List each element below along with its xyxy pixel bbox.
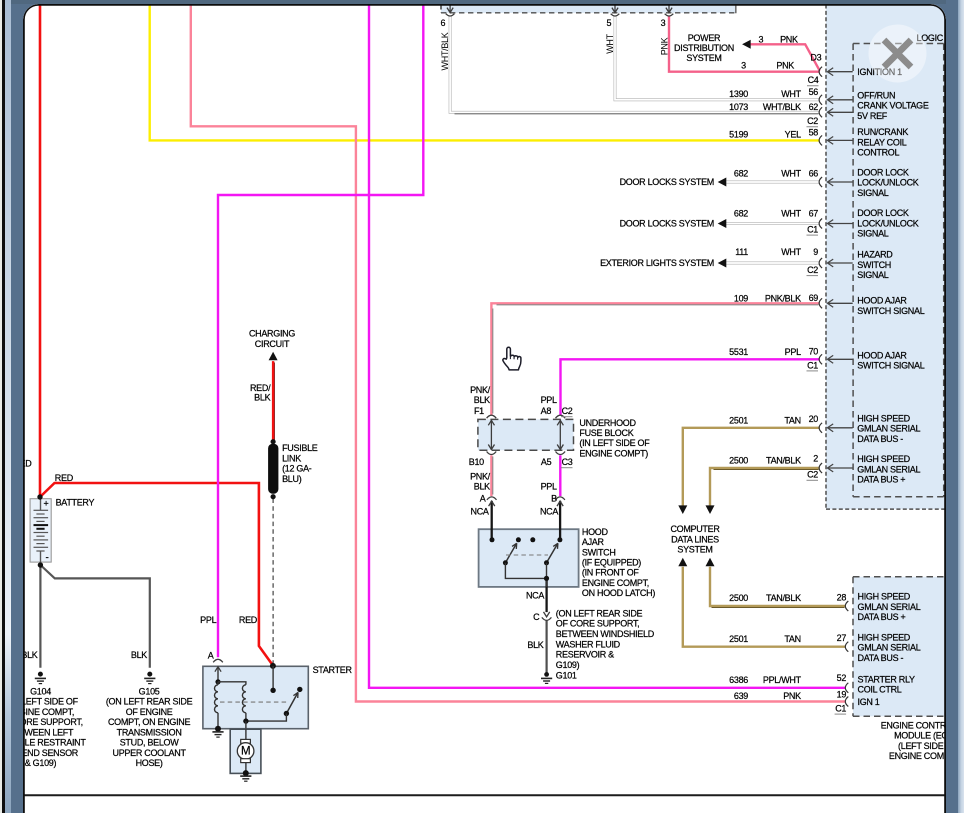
wire: BLK battery negative to G105	[40, 565, 149, 668]
frame slate backdrop (top corners)	[2, 0, 964, 30]
svg-text:62: 62	[808, 101, 818, 111]
wire: PPL fuse A5 to hood switch B	[559, 455, 561, 496]
svg-text:PPL: PPL	[200, 615, 216, 625]
svg-text:NCA: NCA	[470, 506, 488, 516]
svg-text:DATA BUS -: DATA BUS -	[857, 652, 903, 662]
svg-text:ENGINE COMPT,: ENGINE COMPT,	[23, 706, 74, 716]
wire: TAN/BLK 2500 (ECM pin 2 to computer data lines)	[710, 468, 820, 506]
svg-text:SIGNAL: SIGNAL	[857, 270, 889, 280]
svg-text:WHT: WHT	[781, 208, 801, 218]
svg-text:STARTER RLY: STARTER RLY	[857, 674, 915, 684]
svg-text:TAN/BLK: TAN/BLK	[766, 593, 801, 603]
wire: BLK hood switch A drop	[490, 500, 492, 539]
svg-text:28: 28	[836, 592, 846, 602]
svg-text:PNK: PNK	[783, 690, 801, 700]
svg-text:HAZARD: HAZARD	[857, 249, 893, 259]
arrow: to power distribution system	[742, 39, 751, 48]
ECM pin 70 connector	[819, 354, 822, 364]
svg-text:C1: C1	[835, 703, 846, 713]
svg-text:CHARGING: CHARGING	[248, 328, 294, 338]
svg-text:2: 2	[813, 453, 818, 463]
wire: RED battery to starter S terminal	[40, 483, 273, 665]
motor brush top	[240, 739, 250, 743]
svg-text:C1: C1	[807, 360, 818, 370]
svg-text:PNK: PNK	[659, 37, 669, 55]
svg-text:COMPT, ON ENGINE: COMPT, ON ENGINE	[107, 717, 190, 727]
window frame: left outer black edge	[2, 0, 5, 813]
fuse block B10 connector	[486, 451, 496, 454]
ECM pin 62 connector	[819, 107, 822, 117]
svg-text:SIGNAL: SIGNAL	[857, 187, 889, 197]
svg-text:DOOR LOCKS SYSTEM: DOOR LOCKS SYSTEM	[619, 177, 713, 187]
svg-text:DATA LINES: DATA LINES	[671, 534, 719, 544]
node: hood switch contact B	[557, 537, 562, 542]
svg-text:& G109): & G109)	[24, 758, 56, 768]
svg-text:WHT: WHT	[605, 33, 615, 53]
svg-text:OF ENGINE: OF ENGINE	[125, 706, 172, 716]
svg-text:HOSE): HOSE)	[135, 758, 162, 768]
svg-text:WHT: WHT	[781, 247, 801, 257]
starter A terminal connector	[213, 659, 223, 662]
wire: TAN 2501 to ECM2 pin 27	[682, 566, 845, 646]
svg-text:WASHER FLUID: WASHER FLUID	[555, 639, 620, 649]
hood switch right arm	[546, 543, 557, 563]
svg-text:ON HOOD LATCH): ON HOOD LATCH)	[581, 588, 654, 598]
fuse element F1-B10 (double arrow)	[490, 420, 492, 450]
wire: TAN 2501 (ECM pin 20 to computer data lines)	[682, 427, 819, 505]
fuse block F1 connector	[486, 415, 496, 418]
node: left arm pivot	[502, 560, 507, 565]
svg-text:HIGH SPEED: HIGH SPEED	[857, 591, 910, 601]
svg-text:FUSIBLE: FUSIBLE	[282, 443, 318, 453]
hood switch connector A	[486, 496, 496, 499]
svg-text:(IN LEFT SIDE OF: (IN LEFT SIDE OF	[579, 438, 650, 448]
svg-text:G109): G109)	[555, 659, 579, 669]
svg-text:BETWEEN LEFT: BETWEEN LEFT	[23, 727, 74, 737]
wire: NCA hood switch C drop	[545, 578, 547, 612]
starter pull-in coil	[217, 681, 219, 684]
svg-text:109: 109	[733, 293, 747, 303]
svg-text:HOOD: HOOD	[581, 526, 608, 536]
svg-text:ON CORE SUPPORT,: ON CORE SUPPORT,	[23, 717, 83, 727]
fuse block A8 connector	[555, 415, 565, 418]
svg-text:3: 3	[758, 34, 763, 44]
svg-text:NCA: NCA	[539, 506, 557, 516]
svg-text:BLU): BLU)	[282, 473, 302, 483]
svg-text:WHT/BLK: WHT/BLK	[439, 32, 449, 70]
svg-text:PPL: PPL	[540, 395, 556, 405]
svg-text:BLK: BLK	[527, 640, 543, 650]
svg-text:GMLAN SERIAL: GMLAN SERIAL	[857, 642, 920, 652]
window frame: right glossy strip	[958, 0, 964, 813]
node: hood switch contact 2	[515, 537, 520, 542]
svg-text:6: 6	[440, 17, 445, 27]
arrow: to door locks system (67)	[717, 219, 726, 228]
svg-text:PPL/WHT: PPL/WHT	[762, 674, 801, 684]
svg-text:(IN FRONT OF: (IN FRONT OF	[581, 567, 639, 577]
svg-text:58: 58	[808, 127, 818, 137]
arrow: to exterior lights system (9)	[717, 258, 726, 267]
arrow up from computer data lines (right)	[705, 557, 714, 566]
svg-text:5: 5	[606, 17, 611, 27]
wire: WHT 1390 (fuse pin 5 to ECM 56)	[615, 15, 820, 99]
svg-text:RED/: RED/	[249, 382, 270, 392]
svg-text:BLK: BLK	[23, 649, 38, 659]
svg-text:CIRCUIT: CIRCUIT	[254, 338, 289, 348]
svg-text:UPPER COOLANT: UPPER COOLANT	[112, 747, 186, 757]
svg-text:C: C	[533, 611, 540, 621]
svg-text:GMLAN SERIAL: GMLAN SERIAL	[857, 464, 920, 474]
svg-text:TAN: TAN	[784, 415, 800, 425]
svg-text:BETWEEN WINDSHIELD: BETWEEN WINDSHIELD	[555, 629, 654, 639]
svg-text:682: 682	[733, 208, 747, 218]
diagram bottom border	[24, 794, 945, 796]
mechanical link (dashed)	[220, 701, 287, 703]
window frame: top slate bar	[11, 0, 954, 4]
svg-text:WHT/BLK: WHT/BLK	[762, 101, 800, 111]
svg-text:IGN 1: IGN 1	[857, 696, 879, 706]
wire: S terminal to contact	[272, 665, 274, 689]
ECM2 pin 28 connector	[845, 601, 848, 611]
svg-text:2501: 2501	[729, 633, 748, 643]
wire: PNK 639 long run (top to ECM2 pin 19)	[190, 4, 845, 701]
ECM pin D3 connector	[819, 66, 822, 76]
svg-text:CRANK VOLTAGE: CRANK VOLTAGE	[857, 100, 929, 110]
battery	[30, 498, 51, 561]
svg-text:C2: C2	[807, 116, 818, 126]
wire: PNK 3 from fuse pin 3 to ECM D3	[669, 15, 820, 71]
svg-text:BATTERY: BATTERY	[55, 497, 94, 507]
svg-text:3: 3	[660, 17, 665, 27]
svg-text:DOOR LOCKS SYSTEM: DOOR LOCKS SYSTEM	[619, 218, 713, 228]
svg-text:FRT END SENSOR: FRT END SENSOR	[23, 747, 79, 757]
svg-text:F1: F1	[473, 406, 483, 416]
svg-text:19: 19	[836, 689, 846, 699]
svg-text:HIGH SPEED: HIGH SPEED	[857, 413, 910, 423]
wire: PNK/BLK 109 from ECM pin 69 to fuse F1	[491, 303, 819, 415]
node: battery positive	[37, 494, 42, 499]
svg-text:ENGINE COMPT): ENGINE COMPT)	[579, 448, 648, 458]
fuse element A8-A5 (double arrow)	[559, 420, 561, 450]
svg-text:BLK: BLK	[473, 481, 489, 491]
svg-text:AJAR: AJAR	[581, 537, 604, 547]
svg-text:5199: 5199	[729, 129, 748, 139]
svg-text:PNK/BLK: PNK/BLK	[764, 293, 800, 303]
svg-text:+: +	[43, 498, 48, 508]
wire: PPL/WHT 6386 long run to ECM2 pin 52	[369, 4, 846, 687]
window frame: left slate bar	[11, 0, 23, 813]
node: hood switch contact 3	[530, 537, 535, 542]
motor ground symbol	[240, 775, 251, 777]
ECM2 pin 27 connector	[845, 641, 848, 651]
svg-text:PNK: PNK	[780, 34, 798, 44]
node: switch pivot	[283, 710, 288, 715]
svg-text:2501: 2501	[729, 415, 748, 425]
wire: PNK 3 branch to power distribution	[750, 44, 819, 70]
svg-text:UNDERHOOD: UNDERHOOD	[579, 417, 636, 427]
underhood fuse block (middle)	[477, 419, 573, 450]
node: fusible link bottom	[270, 494, 275, 499]
svg-text:GMLAN SERIAL: GMLAN SERIAL	[857, 601, 920, 611]
ECM2 pin 52 connector	[845, 682, 848, 692]
svg-text:HIGH SPEED: HIGH SPEED	[857, 454, 910, 464]
node: starter S terminal	[269, 662, 275, 668]
svg-text:B: B	[551, 493, 557, 503]
wire: WHT/BLK 1073 (fuse pin 6 to ECM 62)	[450, 15, 820, 112]
svg-text:STUD, BELOW: STUD, BELOW	[119, 737, 179, 747]
ground G104 symbol	[37, 671, 42, 676]
wire: RED/BLK to charging circuit	[271, 361, 273, 440]
svg-text:LINK: LINK	[282, 453, 301, 463]
node: fusible link top	[270, 439, 275, 444]
svg-text:5531: 5531	[729, 346, 748, 356]
svg-text:G105: G105	[138, 686, 159, 696]
starter box	[202, 666, 307, 728]
svg-text:56: 56	[808, 87, 818, 97]
svg-text:LOCK/UNLOCK: LOCK/UNLOCK	[857, 218, 919, 228]
svg-text:1073: 1073	[729, 101, 748, 111]
node: motor ground junction	[242, 770, 248, 776]
svg-text:DATA BUS +: DATA BUS +	[857, 612, 905, 622]
svg-text:PPL: PPL	[784, 346, 800, 356]
svg-text:C4: C4	[807, 75, 818, 85]
svg-text:C3: C3	[561, 457, 572, 467]
motor M circle	[237, 742, 254, 759]
svg-text:69: 69	[808, 292, 818, 302]
svg-text:RED: RED	[54, 472, 73, 482]
wire: PPL 5531 to starter A via left loop	[218, 4, 423, 657]
svg-text:OFF/RUN: OFF/RUN	[857, 90, 895, 100]
hood switch left arm	[505, 543, 516, 563]
svg-text:ENGINE CONTROL: ENGINE CONTROL	[880, 720, 945, 730]
svg-text:27: 27	[836, 633, 846, 643]
svg-text:9: 9	[813, 247, 818, 257]
svg-text:G101: G101	[555, 670, 576, 680]
svg-text:DATA BUS -: DATA BUS -	[857, 433, 903, 443]
svg-text:FLEXIBLE RESTRAINT: FLEXIBLE RESTRAINT	[23, 737, 86, 747]
dashed link: fusible link to starter	[272, 498, 274, 664]
ECM pin 69 connector	[819, 298, 822, 308]
svg-text:FUSE BLOCK: FUSE BLOCK	[579, 428, 633, 438]
svg-text:DOOR LOCK: DOOR LOCK	[857, 208, 909, 218]
svg-text:-: -	[45, 552, 48, 563]
svg-text:6386: 6386	[729, 674, 748, 684]
svg-text:DATA BUS +: DATA BUS +	[857, 474, 905, 484]
svg-text:DISTRIBUTION: DISTRIBUTION	[674, 43, 734, 53]
svg-text:(IF EQUIPPED): (IF EQUIPPED)	[581, 557, 640, 567]
svg-text:BLK: BLK	[254, 392, 270, 402]
svg-text:66: 66	[808, 168, 818, 178]
svg-text:PNK/: PNK/	[470, 384, 491, 394]
svg-text:DOOR LOCK: DOOR LOCK	[857, 167, 909, 177]
wire: BLK C connector to G101	[545, 620, 547, 672]
svg-text:MODULE (ECM): MODULE (ECM)	[894, 730, 946, 740]
fusible link F (12 GA BLU)	[268, 443, 278, 493]
svg-text:STARTER: STARTER	[312, 665, 352, 675]
svg-text:B10: B10	[468, 457, 483, 467]
ECM pin 20 connector	[819, 422, 822, 432]
node: right arm pivot	[544, 560, 549, 565]
svg-text:1390: 1390	[729, 89, 748, 99]
svg-text:(ON LEFT REAR SIDE: (ON LEFT REAR SIDE	[555, 608, 642, 618]
arrow to charging circuit	[268, 351, 277, 360]
wire: BLK battery negative to G104	[39, 566, 41, 667]
ECM LOGIC inner box	[852, 43, 854, 496]
arrow: to door locks system (66)	[717, 177, 726, 186]
node: coil/motor junction	[243, 718, 248, 723]
arrow up from computer data lines (left)	[678, 557, 687, 566]
node: motor contact	[297, 686, 302, 691]
svg-text:C2: C2	[807, 265, 818, 275]
close button (X)	[868, 24, 926, 82]
wire: BLK hood switch B drop	[558, 500, 560, 539]
svg-text:682: 682	[733, 168, 747, 178]
node: battery negative	[37, 562, 42, 567]
svg-text:PPL: PPL	[540, 481, 556, 491]
svg-text:5V REF: 5V REF	[857, 110, 888, 120]
mouse cursor (hand pointer)	[502, 347, 520, 370]
connector pin 6 (top fuse block)	[449, 4, 451, 11]
ECM pin 56 connector	[819, 94, 822, 104]
svg-text:2500: 2500	[729, 593, 748, 603]
window frame: right slate bar	[946, 0, 958, 813]
node: hood switch contact A	[489, 537, 494, 542]
svg-text:HIGH SPEED: HIGH SPEED	[857, 632, 910, 642]
wire: WHT 682 door locks (pin 66)	[725, 180, 819, 183]
svg-text:HOOD AJAR: HOOD AJAR	[857, 350, 907, 360]
svg-text:(ON LEFT REAR SIDE: (ON LEFT REAR SIDE	[105, 696, 192, 706]
starter hold-in coil	[218, 681, 246, 684]
svg-text:67: 67	[808, 208, 818, 218]
wire: YEL 5199	[149, 4, 819, 140]
svg-text:A5: A5	[540, 457, 551, 467]
svg-text:HOOD AJAR: HOOD AJAR	[857, 295, 907, 305]
svg-text:RED: RED	[238, 615, 257, 625]
ECM pin 67 connector	[819, 218, 822, 228]
svg-text:RESERVOIR &: RESERVOIR &	[555, 649, 613, 659]
svg-text:SYSTEM: SYSTEM	[677, 544, 712, 554]
svg-text:639: 639	[733, 690, 747, 700]
svg-text:BLK: BLK	[130, 649, 146, 659]
arrow down to computer data lines	[705, 505, 714, 514]
svg-text:C1: C1	[807, 224, 818, 234]
svg-text:C2: C2	[561, 406, 572, 416]
svg-text:PNK/: PNK/	[470, 471, 491, 481]
node: hood switch output junction	[543, 575, 548, 580]
ECM box 2 (bottom right)	[853, 576, 945, 716]
wire: WHT 682 door locks (pin 67)	[725, 222, 819, 225]
ECM outer box (engine control module, right)	[826, 4, 945, 509]
svg-text:(12 GA-: (12 GA-	[282, 463, 312, 473]
svg-text:(LEFT SIDE OF: (LEFT SIDE OF	[898, 740, 946, 750]
ECM pin 9 connector	[819, 258, 822, 268]
wire: PPL 5531 from ECM pin 70 to fuse block A8	[560, 359, 819, 415]
svg-text:RUN/CRANK: RUN/CRANK	[857, 127, 908, 137]
svg-text:LOCK/UNLOCK: LOCK/UNLOCK	[857, 177, 919, 187]
svg-text:WHT: WHT	[781, 168, 801, 178]
svg-text:PNK: PNK	[776, 60, 794, 70]
starter ground symbol	[212, 730, 223, 732]
svg-text:D3: D3	[810, 52, 821, 62]
svg-text:NCA: NCA	[525, 590, 543, 600]
fuse block A5 connector	[555, 451, 565, 454]
hood switch common wiring	[505, 562, 546, 578]
wire: PNK/BLK fuse B10 to hood switch A	[490, 455, 492, 496]
svg-text:GMLAN SERIAL: GMLAN SERIAL	[857, 423, 920, 433]
svg-text:ENGINE COMPT): ENGINE COMPT)	[888, 751, 945, 761]
svg-text:EXTERIOR LIGHTS SYSTEM: EXTERIOR LIGHTS SYSTEM	[600, 258, 714, 268]
svg-text:A: A	[479, 493, 485, 503]
svg-text:M: M	[240, 745, 249, 757]
svg-text:WHT: WHT	[781, 89, 801, 99]
starter motor box	[244, 721, 246, 773]
svg-text:YEL: YEL	[784, 129, 800, 139]
node: starter coil junction	[215, 679, 220, 684]
motor brush bottom	[240, 758, 250, 762]
node: solenoid contact	[270, 687, 275, 692]
svg-text:BLK: BLK	[473, 395, 489, 405]
hood switch mechanical link (dashed)	[506, 554, 548, 556]
svg-text:20: 20	[808, 413, 818, 423]
ECM pin 58 connector	[819, 135, 822, 145]
ECM pin 2 connector	[819, 463, 822, 473]
svg-text:2500: 2500	[729, 455, 748, 465]
svg-text:TAN: TAN	[784, 633, 800, 643]
svg-text:(ON LEFT SIDE OF: (ON LEFT SIDE OF	[23, 696, 79, 706]
hood switch connector B	[555, 496, 565, 499]
svg-text:TRANSMISSION: TRANSMISSION	[116, 727, 181, 737]
node: starter ground junction	[215, 725, 221, 731]
ground G101 symbol	[544, 672, 549, 677]
svg-text:RELAY COIL: RELAY COIL	[857, 137, 906, 147]
ground G105 symbol	[147, 671, 152, 676]
svg-text:SYSTEM: SYSTEM	[686, 53, 721, 63]
hood ajar switch box	[478, 529, 578, 587]
connector pin 5 (top fuse block)	[614, 4, 616, 11]
svg-text:ENGINE COMPT,: ENGINE COMPT,	[581, 577, 648, 587]
ECM2 pin 19 connector	[845, 696, 848, 706]
starter switch arm	[286, 692, 298, 713]
svg-text:SWITCH SIGNAL: SWITCH SIGNAL	[857, 305, 924, 315]
svg-text:111: 111	[735, 247, 748, 257]
svg-text:SWITCH: SWITCH	[857, 259, 891, 269]
svg-text:SIGNAL: SIGNAL	[857, 228, 889, 238]
hood switch connector C	[543, 611, 549, 616]
svg-text:OF CORE SUPPORT,: OF CORE SUPPORT,	[555, 618, 639, 628]
svg-text:CONTROL: CONTROL	[857, 147, 899, 157]
wire: WHT 111 exterior lights (pin 9)	[725, 261, 819, 264]
svg-text:SWITCH SIGNAL: SWITCH SIGNAL	[857, 360, 924, 370]
svg-text:COIL CTRL: COIL CTRL	[857, 684, 901, 694]
window frame: left glossy strip	[5, 0, 11, 813]
svg-text:A: A	[207, 650, 213, 660]
svg-text:POWER: POWER	[687, 33, 720, 43]
wire: TAN/BLK 2500 to ECM2 pin 28	[710, 566, 846, 605]
svg-text:COMPUTER: COMPUTER	[670, 524, 720, 534]
arrow down to computer data lines	[678, 505, 687, 514]
underhood fuse block (top, cut off)	[441, 4, 736, 12]
ECM pin 66 connector	[819, 177, 822, 187]
svg-text:SWITCH: SWITCH	[581, 547, 615, 557]
svg-text:TAN/BLK: TAN/BLK	[766, 455, 801, 465]
svg-text:3: 3	[741, 60, 746, 70]
wire: RED battery feed (vertical from top)	[38, 4, 41, 496]
svg-text:G104: G104	[30, 686, 51, 696]
svg-text:52: 52	[836, 672, 846, 682]
svg-text:A8: A8	[540, 406, 551, 416]
svg-text:C2: C2	[807, 469, 818, 479]
svg-text:70: 70	[808, 346, 818, 356]
